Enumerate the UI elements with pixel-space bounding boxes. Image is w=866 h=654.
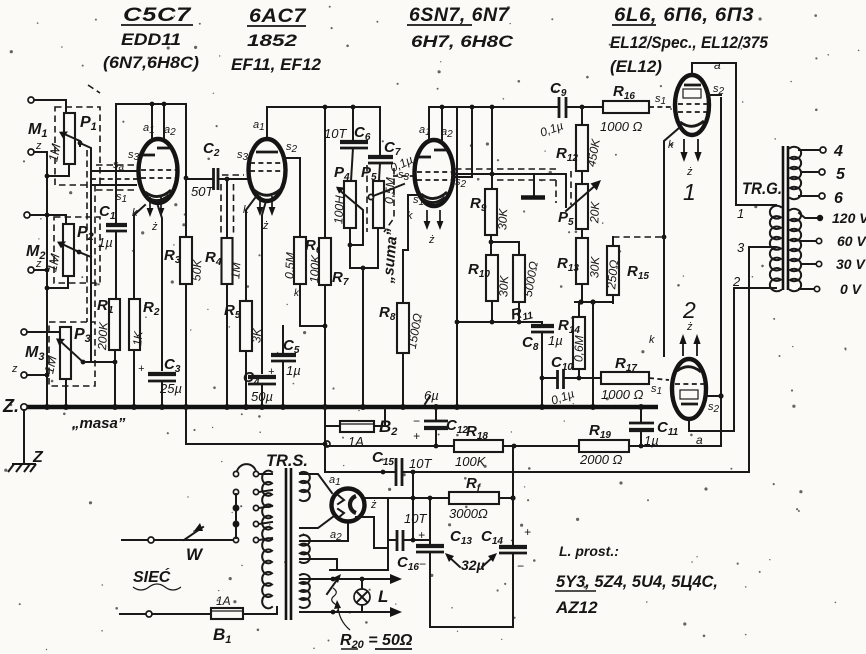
TRG tap 120V (799, 213, 817, 218)
wire z2 to rail (34, 269, 47, 271)
svg-text:(EL12): (EL12) (610, 57, 662, 76)
input M2 terminal top (24, 212, 30, 218)
rectifier tube envelope (332, 489, 365, 522)
svg-text:s3: s3 (128, 149, 140, 163)
svg-text:3000Ω: 3000Ω (449, 506, 488, 521)
V3 anode plates (419, 156, 431, 159)
wire R10 R11 bottoms (491, 301, 493, 322)
V3 heater arrows (427, 210, 440, 226)
P1 wiper (62, 133, 80, 146)
svg-text:W: W (186, 545, 204, 564)
pentode V2 envelope (249, 139, 286, 201)
left rail wire (46, 152, 48, 405)
svg-text:−: − (413, 414, 420, 428)
TRG tap 0V (799, 288, 814, 290)
V2 cathode arc (254, 189, 281, 195)
wire V3 s2 riser (452, 107, 472, 177)
V1 grid dashes (141, 169, 176, 171)
bus junction dots (44, 404, 644, 410)
svg-text:„masa”: „masa” (71, 415, 126, 432)
svg-text:a: a (696, 433, 703, 447)
svg-text:10T: 10T (324, 126, 347, 141)
wire V2 screen to R6 (283, 158, 300, 237)
svg-text:50T: 50T (191, 184, 214, 199)
input M1 terminal z (28, 149, 34, 155)
wire P5 bottom (377, 228, 379, 268)
V2 grid dashes (250, 162, 284, 164)
TRG tap 6 wire (799, 195, 819, 197)
svg-text:C5C7: C5C7 (123, 5, 192, 26)
svg-text:10T: 10T (404, 511, 427, 526)
ground symbol on shield (533, 176, 535, 196)
V4 s2 junction dot (718, 393, 723, 398)
wire R9 bottom (490, 235, 492, 255)
wire R8 bottom to bus (402, 353, 404, 406)
svg-text:ż: ż (428, 234, 435, 246)
wire P1 bottom (47, 164, 69, 176)
ground bus masa (27, 405, 658, 410)
svg-text:z: z (11, 363, 18, 375)
resistor R5 (240, 301, 252, 351)
wire R11 top (518, 242, 520, 255)
svg-text:EF11, EF12: EF11, EF12 (231, 55, 322, 74)
wire long riser to bus (456, 107, 458, 406)
resistor R10 (486, 255, 498, 301)
wire C14 bottom (512, 553, 514, 627)
V3 cathode arc (421, 192, 447, 199)
svg-text:s2: s2 (286, 141, 298, 155)
fuse B1 (120, 613, 146, 615)
svg-text:L. prost.:: L. prost.: (559, 543, 619, 559)
shield dashed box P2 (54, 217, 100, 283)
wire fuse branch (324, 407, 326, 472)
V3 grid dashes (417, 171, 452, 173)
resistor R19 (579, 440, 629, 452)
wire C8 to C10 (541, 332, 543, 406)
wire R3 bottom to bus (185, 284, 187, 406)
P3 wiper (59, 340, 83, 362)
svg-text:1M: 1M (228, 262, 243, 280)
dashed stub top left (88, 85, 100, 93)
shield dashed box P1 (55, 107, 100, 185)
shield dashed pair V3 grid right (455, 168, 560, 170)
svg-text:ż: ż (151, 221, 158, 233)
resistor R14 (573, 317, 585, 369)
wire ground return line y472 (325, 471, 394, 473)
wire B1 to TRS (243, 607, 277, 614)
wire R18 to R19 (503, 445, 579, 447)
V4 heater arrows (684, 139, 698, 157)
TRG secondary lower coil (790, 209, 801, 291)
svg-text:6: 6 (834, 190, 843, 207)
wire V3 cathode to R8 (403, 195, 420, 303)
wire C10 to R17 (564, 377, 602, 379)
wire V1 cathode to R2 (134, 205, 145, 299)
V1 anode plates (143, 154, 155, 157)
svg-text:+: + (138, 363, 145, 375)
TRG primary tap 3 wire (749, 246, 776, 248)
resistor R13 (581, 229, 583, 238)
wire R19 to screens (629, 98, 721, 446)
wire R7 riser to rail (324, 107, 326, 238)
svg-text:EDD11: EDD11 (121, 30, 181, 49)
capacitor C11 (640, 409, 642, 422)
P5 wiper contact (368, 194, 373, 199)
shield dashed corridor (86, 150, 88, 322)
svg-text:+: + (268, 366, 275, 378)
wire P4-P5 bottoms (350, 267, 378, 269)
chassis ground symbol (8, 464, 36, 472)
svg-text:1µ: 1µ (286, 363, 301, 378)
wire R15 top dashed to k line (612, 237, 614, 246)
TRG tap 4 wire (799, 149, 820, 151)
tube type label group 1: C5C7 (103, 5, 199, 72)
svg-text:1: 1 (683, 179, 696, 205)
TRS heater coil b (300, 535, 310, 563)
wire R2 bottom to bus (133, 350, 135, 406)
wire filter left column (429, 498, 431, 543)
wire main rail B (267, 107, 380, 140)
svg-text:0,5M: 0,5M (282, 252, 297, 279)
resistor R9 (485, 189, 497, 235)
wire Rf right (499, 497, 513, 499)
P5b wiper arrow (566, 184, 597, 211)
V4 internals (684, 84, 701, 87)
potentiometer P2 (63, 224, 74, 276)
svg-text:a: a (714, 58, 721, 72)
svg-text:1µ: 1µ (548, 333, 563, 348)
wire rectifier cathode to Rf (364, 497, 449, 499)
wire C2 to V2 grid (218, 178, 250, 180)
wire C9 right to R16 (566, 106, 603, 108)
svg-text:L: L (378, 587, 388, 606)
svg-text:6SN7, 6N7: 6SN7, 6N7 (409, 5, 510, 26)
input M3 terminal z (21, 372, 27, 378)
wire grid dashes into V3 (389, 184, 404, 190)
wire C5 stem (282, 326, 284, 355)
potentiometer P5 (373, 181, 384, 228)
svg-text:32µ: 32µ (461, 557, 485, 573)
V5 screen stub (706, 395, 721, 397)
svg-text:a1: a1 (329, 474, 341, 488)
svg-text:10T: 10T (409, 456, 432, 471)
resistor R17 (601, 372, 649, 384)
svg-text:30K: 30K (496, 274, 511, 297)
wire C3 to bus (161, 381, 163, 406)
resistor R18 (454, 440, 503, 452)
svg-text:1852: 1852 (247, 31, 298, 50)
svg-text:Z.: Z. (2, 396, 19, 416)
svg-text:sa: sa (113, 159, 125, 173)
svg-text:1000 Ω: 1000 Ω (600, 119, 643, 134)
resistor R16 (603, 101, 649, 113)
potentiometer P3 (60, 327, 71, 379)
svg-text:ż: ż (686, 166, 693, 178)
wire M2 top to P2 (30, 215, 66, 224)
svg-text:a1: a1 (253, 119, 265, 133)
wire C13 bottom (429, 552, 431, 627)
resistor R8 (397, 303, 409, 353)
wire psu bottom (430, 626, 513, 628)
svg-text:z: z (35, 140, 42, 152)
resistor R3 (180, 237, 192, 284)
svg-text:SIEĆ: SIEĆ (133, 567, 171, 586)
wire rail A above V1 (116, 104, 186, 225)
wire bus drop to psu ground run (186, 407, 322, 444)
svg-text:+: + (524, 525, 531, 539)
wire V3 grid to P5 wiper (452, 174, 566, 207)
svg-text:100K: 100K (455, 454, 487, 469)
TRG secondary upper coil (790, 147, 801, 199)
capacitor C8 (541, 322, 543, 325)
shield dashes around grid dropper (220, 184, 222, 234)
wire z1 to left rail (34, 151, 47, 153)
svg-text:4: 4 (833, 143, 843, 160)
svg-text:−: − (419, 557, 426, 571)
svg-text:20K: 20K (587, 200, 602, 224)
svg-text:2000 Ω: 2000 Ω (579, 452, 623, 467)
svg-text:s2: s2 (708, 401, 720, 415)
resistor R4 (222, 238, 233, 284)
shield dashed box P3 (49, 322, 95, 386)
TRG core (782, 146, 785, 290)
svg-text:30 V: 30 V (836, 256, 866, 272)
wire bus to chassis ground (23, 410, 25, 464)
wire V2 cathode to R5 (246, 194, 258, 301)
svg-text:2: 2 (682, 297, 696, 323)
svg-text:s1: s1 (116, 191, 127, 205)
TRS bottom winding wires with lamp (300, 578, 392, 580)
TRS primary top jumper arc (237, 464, 256, 471)
svg-text:1000 Ω: 1000 Ω (601, 387, 644, 402)
wire R1 bottom to bus (114, 350, 116, 406)
wire cathode to C4 (262, 201, 266, 373)
svg-text:3: 3 (737, 240, 745, 255)
wire V3 anode risers and rail C (429, 107, 559, 141)
TRS tap column link wire (235, 494, 237, 538)
wire P2 bottom (47, 276, 68, 288)
resistor R7 (319, 238, 331, 285)
svg-text:6H7, 6H8C: 6H7, 6H8C (411, 32, 514, 51)
svg-text:30K: 30K (587, 255, 602, 278)
TRS a1 wire to rectifier (300, 474, 332, 493)
V4 anode wire (692, 63, 776, 205)
lamp L (361, 579, 363, 589)
resistor R15 (607, 246, 619, 295)
wire z3 to rail (27, 374, 47, 376)
svg-text:2: 2 (732, 274, 741, 289)
wire grid leads into V1 (91, 170, 140, 172)
wire C4 to bus (261, 384, 263, 406)
V2 anode plate (256, 151, 278, 154)
wire R4 top to C2 node (226, 179, 228, 238)
svg-text:3K: 3K (249, 327, 264, 344)
svg-text:ż: ż (686, 321, 693, 333)
wire riser to R9 (491, 107, 493, 189)
P4 wiper (338, 189, 363, 245)
TRS heater coil c (300, 574, 310, 608)
wire R6 bottom jog (300, 284, 325, 326)
svg-text:5: 5 (836, 166, 846, 183)
svg-text:60 V: 60 V (837, 233, 866, 249)
V4 cathode wire to k line (664, 128, 679, 356)
wire R17 to V5 grid (649, 378, 669, 380)
svg-text:1: 1 (737, 206, 744, 221)
triode V3 envelope (415, 140, 454, 206)
V2 heater arrows (260, 196, 272, 212)
wire M1 top to P1 (34, 100, 66, 113)
svg-text:k: k (668, 139, 674, 151)
potentiometer P4 (344, 181, 356, 228)
svg-text:1K: 1K (130, 330, 145, 347)
wire M3 to P3 (27, 331, 62, 333)
wire summing line in corridor (80, 143, 91, 362)
wire C15 to right run (402, 247, 749, 472)
wire R5 bottom to bus (245, 351, 247, 406)
TRG tap 5 wire (801, 171, 819, 173)
TRS a2 wire to rectifier (300, 516, 334, 528)
svg-text:EL12/Spec., EL12/375: EL12/Spec., EL12/375 (610, 33, 768, 52)
wire B2 leads (325, 425, 340, 427)
resistor R1 (109, 299, 120, 350)
svg-text:−: − (517, 559, 524, 573)
rheostat R20 wiper (327, 577, 339, 594)
shield dashes around P4-P5 (366, 165, 368, 232)
svg-text:100K: 100K (307, 254, 322, 284)
V1 cathode arc (145, 190, 171, 197)
svg-text:6AC7: 6AC7 (249, 6, 307, 27)
resistor R6 (294, 237, 306, 284)
wire lateral y322 (457, 321, 542, 323)
wire R15 bottom (612, 295, 614, 303)
svg-text:k: k (649, 334, 655, 346)
tube type label group 3: 6SN7 6N7 (407, 5, 514, 51)
resistor R11 (513, 255, 525, 302)
wire riser x413 (412, 472, 414, 540)
svg-text:a1: a1 (143, 122, 155, 136)
V5 heater arrows (683, 338, 697, 356)
triode V1 envelope (139, 139, 178, 203)
svg-text:s1: s1 (413, 194, 424, 208)
svg-text:1µ: 1µ (98, 235, 113, 250)
wire R14 top (578, 303, 580, 317)
svg-text:s3: s3 (398, 169, 410, 183)
svg-text:AZ12: AZ12 (555, 598, 598, 617)
wire a2 return loop (356, 517, 388, 548)
wire C1 to R1 (115, 231, 117, 299)
shield dashed pair to V1 grid (96, 164, 134, 166)
wire anode column to R3 (185, 160, 187, 237)
svg-text:a2: a2 (164, 124, 176, 138)
V4 screen stub (707, 94, 721, 96)
resistor R2 (129, 299, 140, 350)
wire C2 link from anode node (186, 178, 212, 180)
V5 anode wire (689, 288, 776, 431)
svg-text:50K: 50K (189, 258, 204, 281)
wire R7 bottom to bus (324, 285, 326, 406)
svg-text:200K: 200K (95, 321, 111, 352)
wire C7 to P5 (379, 163, 380, 181)
svg-text:5Y3, 5Z4, 5U4, 5Ц4C,: 5Y3, 5Z4, 5U4, 5Ц4C, (556, 572, 718, 591)
input M3 terminal (21, 329, 27, 335)
wire P3 bottom (65, 379, 67, 406)
svg-text:s3: s3 (237, 149, 249, 163)
svg-text:1A: 1A (216, 594, 231, 608)
V5 internals (677, 367, 701, 372)
input M1 terminal top (28, 97, 34, 103)
svg-text:120 V: 120 V (832, 210, 866, 226)
svg-text:s2: s2 (713, 83, 725, 97)
switch W (122, 539, 148, 541)
wire C12 bottom (435, 428, 437, 446)
svg-text:30K: 30K (495, 207, 510, 230)
P2 wiper (60, 243, 79, 252)
potentiometer P1 (64, 113, 75, 164)
svg-text:0,6M: 0,6M (571, 335, 586, 362)
TRG tap 30V (801, 263, 816, 265)
wire cathode to C3 (158, 206, 162, 370)
output tube V5 envelope (672, 359, 706, 419)
wire P3 wiper to R1 column (83, 361, 115, 363)
fuse B2 (340, 421, 374, 432)
wire right column x513 (512, 446, 514, 545)
svg-text:ż: ż (370, 499, 377, 511)
wire C6 riser (352, 107, 354, 142)
svg-text:0 V: 0 V (840, 281, 863, 297)
svg-text:100H: 100H (331, 195, 346, 225)
svg-text:6L6, 6П6, 6П3: 6L6, 6П6, 6П3 (614, 5, 754, 26)
TRG primary coil (770, 206, 781, 292)
output tube V4 envelope (675, 75, 709, 135)
wire C6 to P4 (351, 148, 353, 181)
wire HT line left segment (325, 445, 454, 447)
V1 heater arrows (150, 197, 161, 213)
TRS primary coil (262, 471, 272, 609)
rectifier internals (350, 496, 356, 513)
wire R4 bottom to bus (226, 284, 228, 406)
wire P4 bottom junction (349, 228, 351, 268)
TRS primary tap circles left column (233, 471, 238, 476)
resistor R12 (581, 107, 583, 125)
tube type label group 2: 6AC7 (231, 6, 322, 74)
svg-text:z: z (35, 258, 42, 270)
svg-text:s1: s1 (655, 93, 666, 107)
TRG tap 60V (801, 240, 816, 242)
wire rail to C7 (379, 107, 381, 157)
svg-text:TR.G.: TR.G. (742, 179, 782, 198)
wire suma node to bus (362, 268, 364, 406)
svg-text:+: + (418, 528, 425, 542)
svg-text:+: + (413, 429, 420, 443)
wire C16 branch (330, 498, 388, 570)
TRS heater mid wires (300, 522, 348, 541)
potentiometer P5b 20K (581, 171, 583, 184)
wire anode risers V1 (151, 104, 153, 143)
TRS primary tap wires (259, 490, 272, 492)
svg-text:(6N7,6H8C): (6N7,6H8C) (103, 53, 199, 72)
tube type label group 4: 6L6 family (610, 5, 768, 76)
wire R13 bottom junction (581, 284, 583, 302)
TRS core (285, 468, 288, 620)
input M2 terminal z (28, 267, 34, 273)
TRS primary tap circles right column (253, 471, 258, 476)
svg-text:Z: Z (32, 449, 44, 466)
svg-text:ż: ż (262, 220, 269, 232)
svg-text:s1: s1 (651, 383, 662, 397)
svg-text:TR.S.: TR.S. (266, 451, 308, 470)
wire R14 bottom to C10 node (578, 369, 580, 378)
resistor Rf (449, 492, 499, 504)
